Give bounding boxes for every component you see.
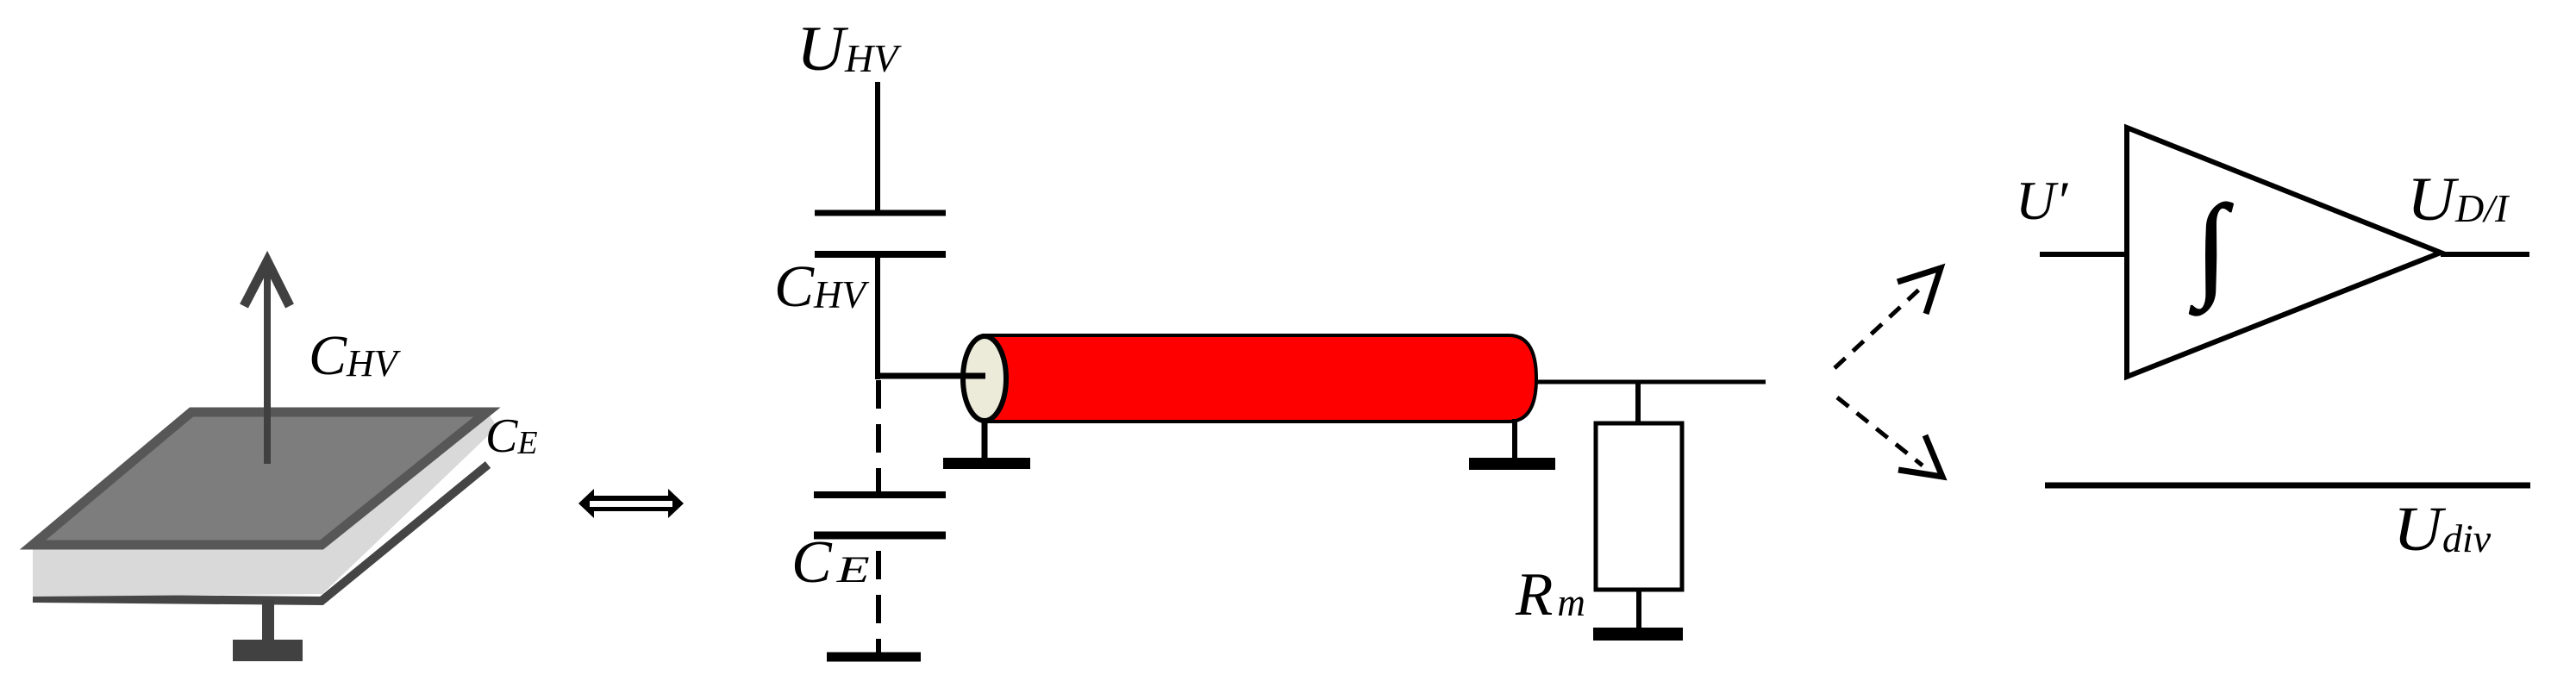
ground (C_E): [827, 653, 921, 662]
capacitor C_HV plate 2: [815, 251, 946, 258]
dashed arrow down shaft: [1837, 397, 1923, 466]
svg-text:U′: U′: [2016, 170, 2068, 231]
coaxial cable body: [984, 335, 1536, 422]
svg-text:UHV: UHV: [797, 14, 902, 84]
field arrow head: [244, 261, 290, 306]
dashed arrow down head: [1898, 435, 1942, 477]
plate capacitor 3D: top electrode face: [33, 412, 487, 545]
wire from U_HV: [875, 82, 880, 213]
equivalence double arrow: [578, 489, 684, 518]
capacitor C_E plate 2: [814, 532, 946, 540]
svg-text:UD/I: UD/I: [2407, 165, 2510, 234]
svg-text:Rm: Rm: [1515, 561, 1585, 628]
junction lead to resistor: [1635, 382, 1641, 423]
ground (plate) bar: [233, 640, 303, 661]
dashed wire C_E to ground: [876, 535, 881, 653]
dashed arrow up shaft: [1835, 288, 1921, 368]
input wire: [2040, 252, 2127, 257]
divider line U_div: [2045, 483, 2530, 489]
integrator op-amp triangle: [2127, 128, 2441, 377]
svg-text:CHV: CHV: [309, 324, 402, 387]
capacitor C_E plate 1: [814, 491, 946, 498]
resistor bottom lead: [1636, 590, 1641, 630]
coaxial cable left face: [963, 336, 1006, 421]
svg-text:Udiv: Udiv: [2393, 494, 2492, 564]
ground (R_m): [1593, 628, 1683, 641]
capacitor C_HV plate 1: [815, 210, 946, 216]
svg-text:CE: CE: [791, 529, 870, 596]
svg-text:CHV: CHV: [774, 253, 870, 319]
svg-text:∫: ∫: [2190, 182, 2234, 316]
dashed wire node to C_E: [876, 380, 881, 495]
svg-text:CE: CE: [485, 409, 538, 463]
cable right ground stem: [1512, 419, 1517, 459]
dashed arrow up head: [1898, 268, 1941, 314]
output wire: [2441, 252, 2529, 257]
ground (plate) stem: [262, 600, 274, 652]
wire capacitor to node: [875, 254, 880, 379]
plate capacitor 3D: dielectric slab: [33, 412, 497, 597]
resistor R_m body: [1596, 423, 1682, 590]
wire node to cable: [876, 373, 985, 379]
plate capacitor 3D: bottom electrode: [33, 465, 488, 601]
field arrow shaft: [264, 269, 271, 464]
cable left ground stem: [982, 419, 988, 459]
cable left ground bar: [943, 458, 1030, 469]
wire cable to output: [1535, 380, 1766, 384]
cable right ground bar: [1469, 458, 1555, 470]
